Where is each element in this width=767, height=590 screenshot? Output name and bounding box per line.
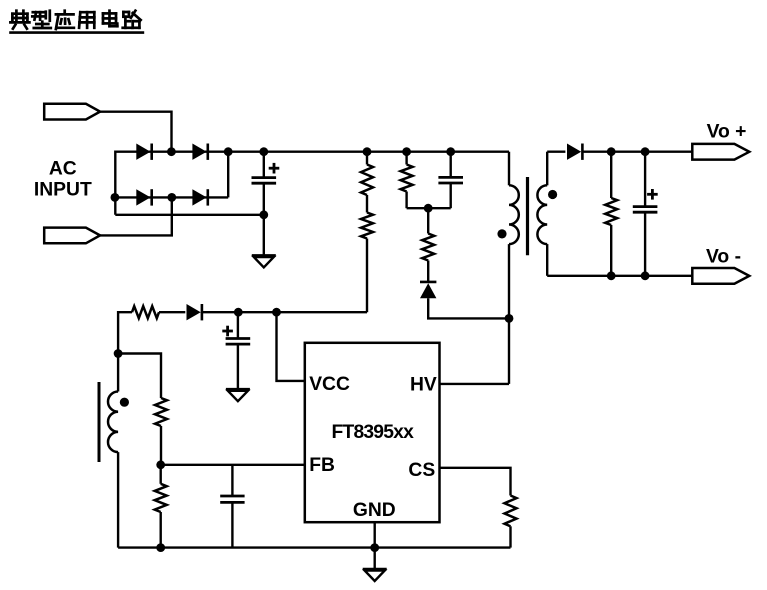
connector J2 (AC line 2) [44, 228, 100, 244]
title 典型应用电路 (Typical Application Circuit) [9, 11, 144, 33]
resistor R3 (snubber) [401, 152, 413, 209]
ground GND1 [252, 255, 276, 267]
wire R1-R2 [366, 195, 368, 213]
U1 pin label CS [408, 460, 435, 481]
wire bridge bottom row [115, 196, 228, 198]
node bridge left-bottom [111, 193, 120, 202]
resistor R5 (output load) [605, 152, 617, 276]
diode D1 (bridge top-left) [136, 144, 151, 160]
wire secondary top to diode [547, 150, 565, 152]
wire HV pin [440, 383, 510, 385]
wire snubber join [407, 207, 451, 209]
svg-text:HV: HV [410, 375, 437, 396]
node aux top [114, 349, 123, 358]
node snubber mid [424, 204, 433, 213]
wire HV top rail [228, 150, 509, 152]
U1 part number FT8395xx [332, 422, 415, 443]
node C3 bottom [641, 271, 650, 280]
U1 pin label VCC [309, 374, 350, 395]
node FB junction [156, 460, 165, 469]
wire output + rail [583, 150, 693, 152]
transformer T2 aux winding [108, 354, 118, 548]
node C1 top [259, 147, 268, 156]
node bridge AC2 [167, 193, 176, 202]
node bridge AC1 [167, 147, 176, 156]
wire bridge top row [115, 150, 228, 152]
svg-text:Vo -: Vo - [706, 247, 741, 268]
connector J1 (AC line 1) [44, 104, 100, 120]
diode D3 (bridge bottom-left) [136, 189, 151, 205]
wire D7 to startup chain [202, 311, 367, 313]
resistor R7 (FB divider upper) [155, 398, 167, 465]
node bridge out+ [224, 147, 233, 156]
transformer T1 core [526, 177, 529, 255]
capacitor C4 (VCC, polarized) [226, 312, 251, 389]
diode D4 (bridge bottom-right) [192, 189, 207, 205]
wire bottom rail [118, 546, 510, 548]
svg-text:FB: FB [309, 455, 335, 476]
node GND junction [370, 543, 379, 552]
transformer T1 secondary winding [537, 152, 547, 276]
svg-text:AC: AC [49, 159, 77, 180]
U1 pin label GND [353, 500, 396, 521]
node C2 top [446, 147, 455, 156]
node R5 bottom [607, 271, 616, 280]
wire J2 to bridge bottom [100, 197, 172, 235]
transformer T1 primary winding [509, 152, 519, 384]
wire bridge left side [114, 151, 116, 215]
wire GND pin [374, 522, 376, 569]
T1 primary polarity dot [497, 229, 506, 238]
node C1 bottom [259, 210, 268, 219]
capacitor C3 (output, polarized) [633, 152, 658, 276]
wire J1 to bridge top [100, 112, 172, 152]
capacitor C2 (snubber) [438, 152, 463, 209]
wire bridge right side [227, 152, 229, 198]
plus mark C3 [647, 189, 658, 200]
node aux-R8 bottom [156, 543, 165, 552]
plus mark C4 [222, 326, 233, 337]
svg-text:GND: GND [353, 500, 396, 521]
transformer T2 core [98, 382, 101, 462]
T1 secondary polarity dot [548, 190, 557, 199]
wire bridge minus rail [115, 214, 263, 216]
label Vo+ [707, 122, 747, 143]
diode D2 (bridge top-right) [192, 144, 207, 160]
resistor R6 (VCC series) [132, 306, 159, 318]
plus mark C1 [269, 163, 280, 174]
label Vo- [706, 247, 741, 268]
wire VCC tap to pin [277, 312, 305, 381]
capacitor C5 (FB) [220, 465, 244, 548]
connector J3 Vo+ [692, 144, 749, 160]
svg-text:CS: CS [408, 460, 435, 481]
svg-text:FT8395xx: FT8395xx [332, 422, 415, 443]
T2 aux polarity dot [120, 398, 129, 407]
wire FB pin [161, 464, 305, 466]
node R5 top [607, 147, 616, 156]
node R3 top [402, 147, 411, 156]
node R1 top [363, 147, 372, 156]
node VCC tap [272, 308, 281, 317]
wire output - rail [547, 275, 692, 277]
wire R6 to D7 [159, 311, 185, 313]
wire aux stub to R7 [118, 354, 161, 399]
svg-text:VCC: VCC [309, 374, 350, 395]
node VCC cap top [234, 308, 243, 317]
wire C1 to ground [263, 215, 265, 256]
U1 pin label HV [410, 375, 437, 396]
wire D5 to drain node [428, 298, 509, 318]
resistor R9 (current sense) [505, 496, 517, 548]
svg-text:Vo +: Vo + [707, 122, 747, 143]
resistor R2 (startup lower) [361, 213, 373, 313]
resistor R4 (clamp) [422, 208, 434, 281]
capacitor C1 (bulk, polarized) [252, 152, 277, 215]
diode D5 (clamp, cathode up) [420, 282, 436, 298]
op-amp / controller U1 FT8395xx box [305, 343, 440, 522]
ground GND3 [363, 569, 387, 581]
wire CS pin [440, 468, 511, 496]
svg-text:INPUT: INPUT [34, 180, 92, 201]
label AC INPUT [34, 159, 92, 201]
connector J4 Vo- [692, 268, 749, 284]
diode D6 (output rectifier) [567, 144, 582, 160]
wire aux to R6 [118, 312, 132, 353]
resistor R8 (FB divider lower) [155, 465, 167, 548]
resistor R1 (startup upper) [361, 152, 373, 195]
node drain/HV junction [505, 314, 514, 323]
ground GND2 [226, 389, 250, 401]
diode D7 (VCC rectifier) [187, 304, 202, 320]
U1 pin label FB [309, 455, 335, 476]
node C3 top [641, 147, 650, 156]
